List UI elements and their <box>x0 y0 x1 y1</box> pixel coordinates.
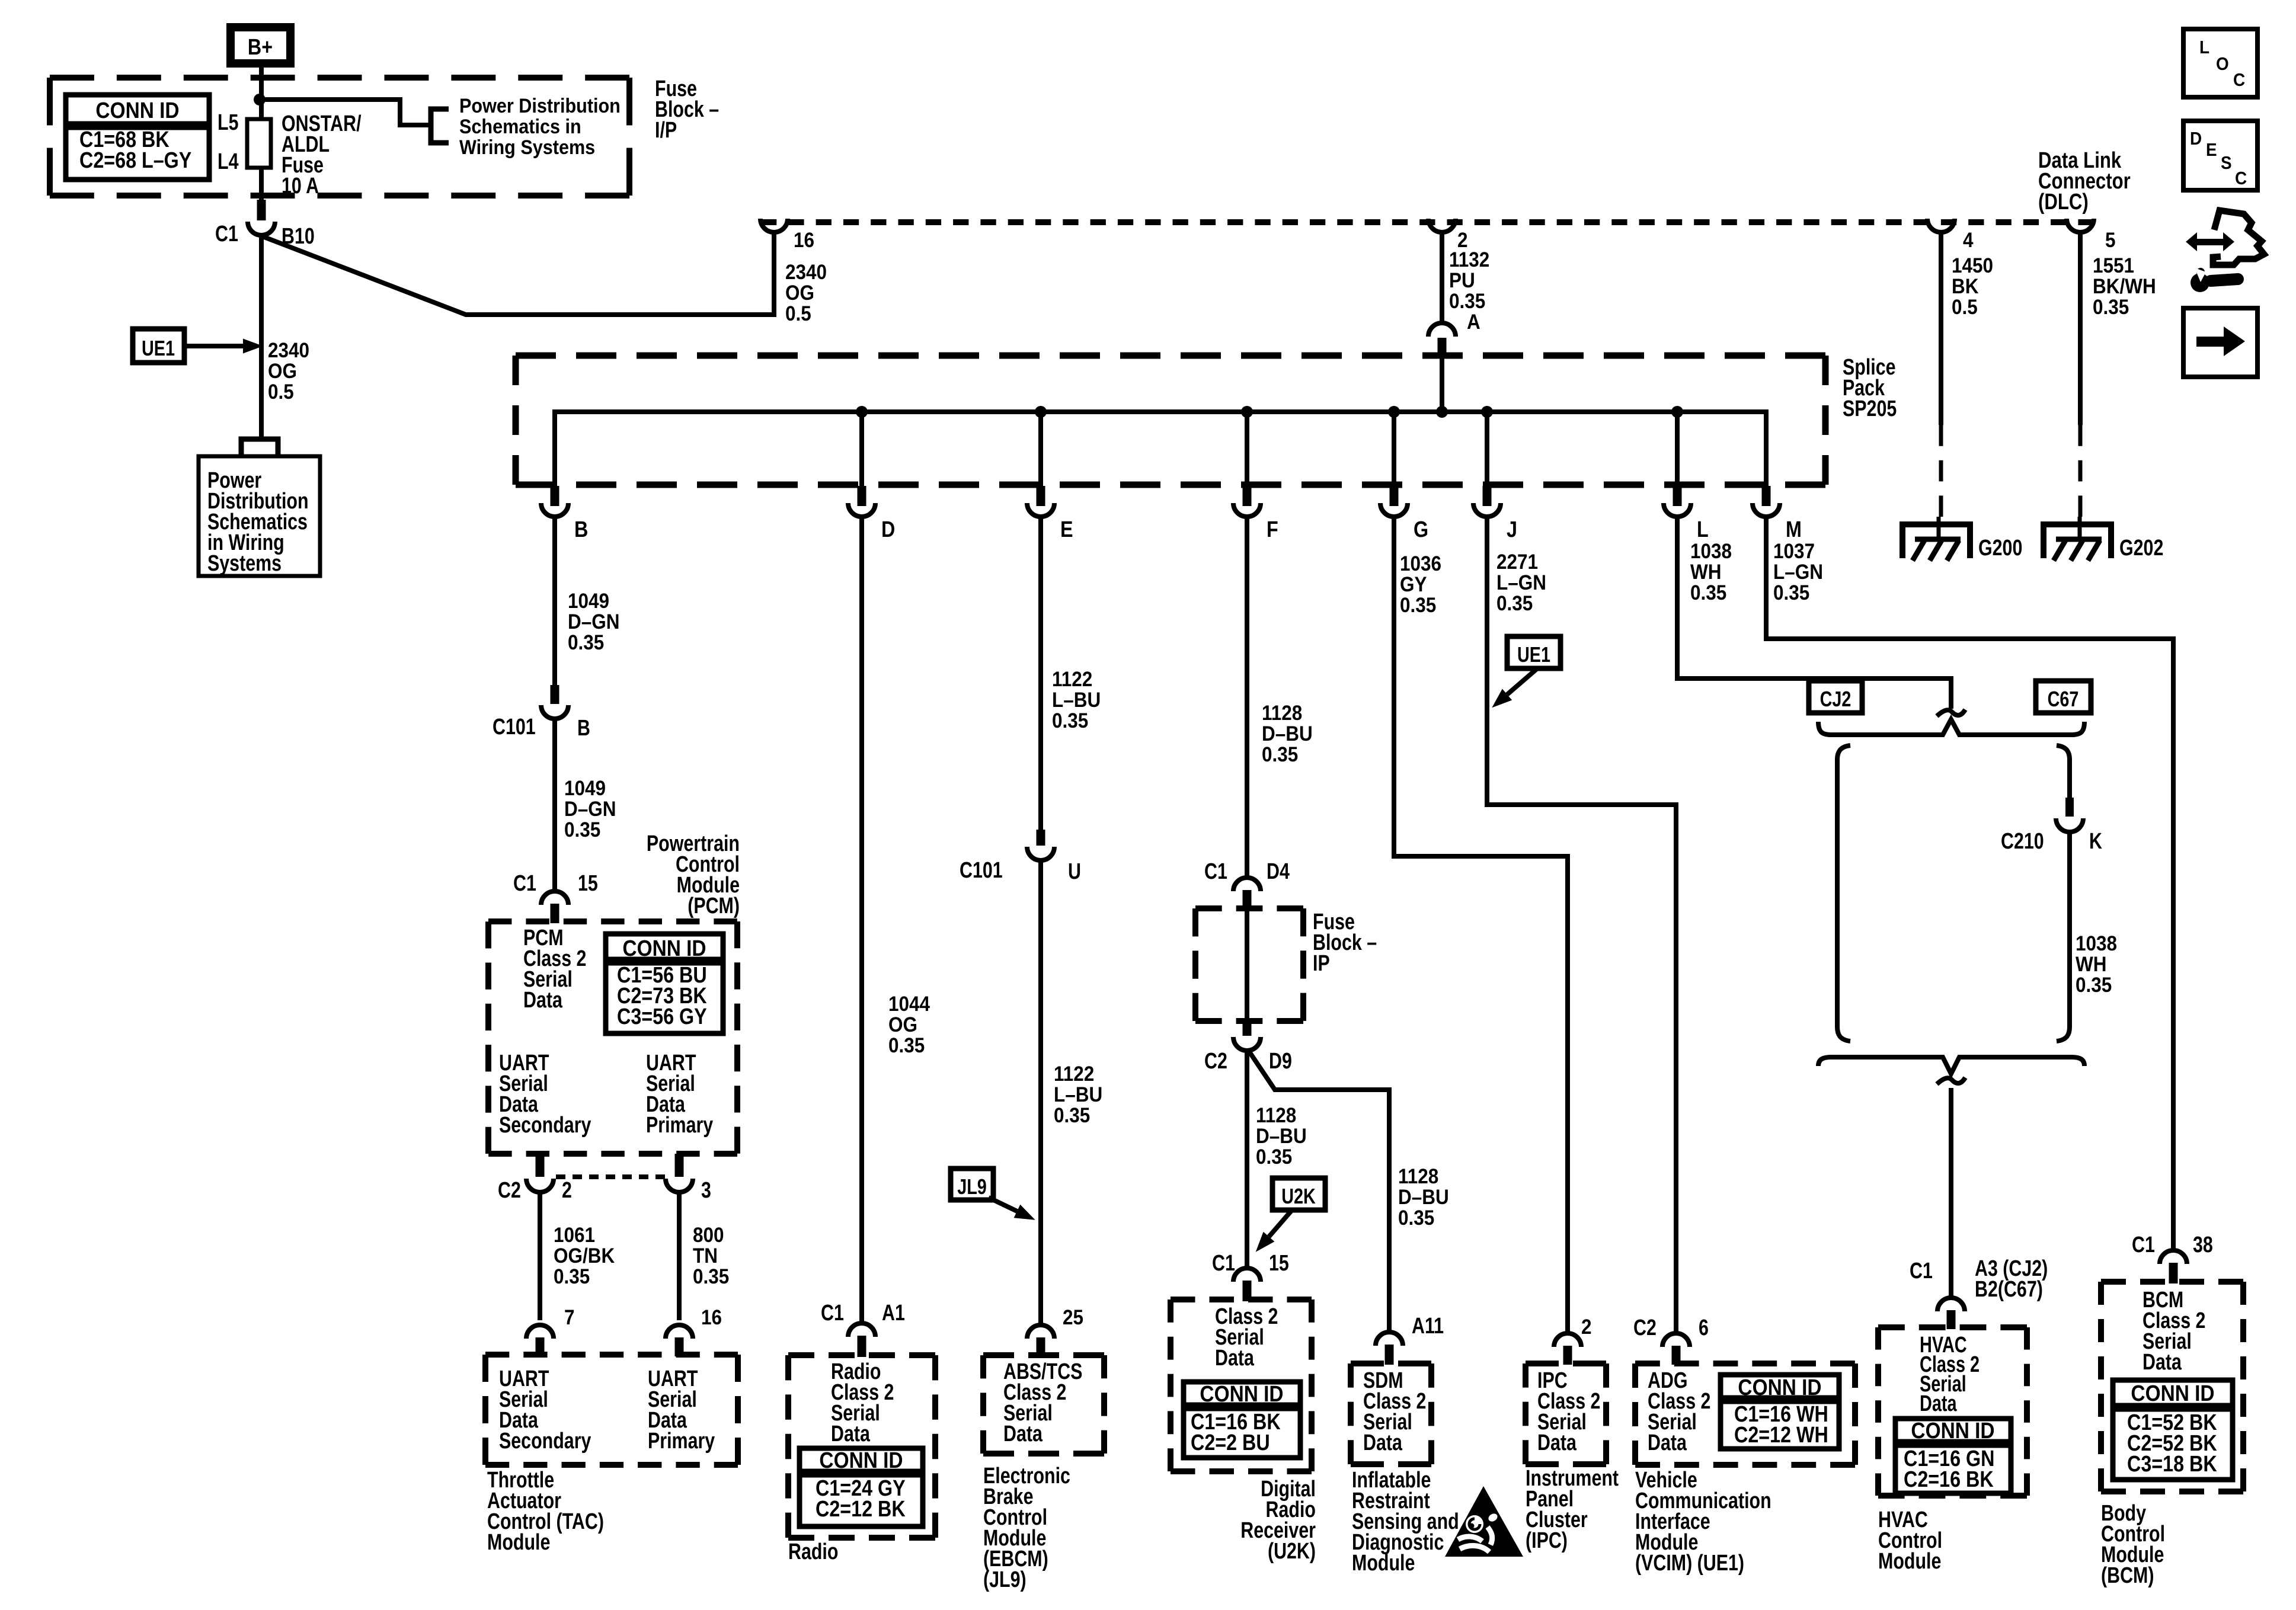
TAC module dashed box <box>485 1352 738 1358</box>
wire label 1551 BK/WH 0.35 <box>2093 255 2156 319</box>
svg-text:CJ2: CJ2 <box>1820 687 1851 711</box>
wire pin A to bus <box>1440 357 1444 412</box>
label C1 (B10) <box>215 222 238 247</box>
connector pin 2 into IPC <box>1554 1333 1581 1347</box>
wire 1128 D-BU from splice F <box>1245 517 1249 878</box>
wire label 1044 OG 0.35 <box>888 993 930 1058</box>
svg-text:C: C <box>2233 70 2245 91</box>
svg-text:D4: D4 <box>1267 859 1290 884</box>
label L5 <box>218 110 238 135</box>
svg-text:C1=56 BUC2=73 BKC3=56 GY: C1=56 BUC2=73 BKC3=56 GY <box>617 963 707 1029</box>
svg-text:C1: C1 <box>2132 1233 2155 1257</box>
wire 1061 OG/BK <box>538 1192 542 1320</box>
label D4 <box>1267 859 1290 884</box>
svg-text:C2: C2 <box>1204 1049 1227 1074</box>
label 2 <box>1457 229 1468 252</box>
wire label 1037 L-GN 0.35 (M) <box>1773 540 1823 605</box>
svg-text:C2: C2 <box>1633 1315 1657 1340</box>
svg-text:C1: C1 <box>821 1301 844 1326</box>
label terminal M <box>1786 517 1802 542</box>
label HVAC Class 2 Serial Data <box>1920 1332 1980 1416</box>
label Splice Pack SP205 <box>1843 355 1897 421</box>
label Vehicle Communication Interface Module (VCIM)(UE1) <box>1635 1468 1771 1576</box>
label Fuse Block - IP <box>1313 910 1377 976</box>
wire label 1128 D-BU 0.35 (F) <box>1262 702 1313 767</box>
wire 1128 D-BU to U2K <box>1245 1051 1249 1269</box>
svg-text:C1=16 GNC2=16 BK: C1=16 GNC2=16 BK <box>1904 1446 1994 1492</box>
wire label 1038 WH 0.35 (K) <box>2076 933 2117 997</box>
ADG dashed box <box>1635 1361 1855 1366</box>
splice pack terminal E <box>1037 486 1045 506</box>
harness brace (top) <box>1818 719 2084 735</box>
svg-text:CONN ID: CONN ID <box>1738 1375 1821 1400</box>
label 6 (ADG) <box>1699 1315 1709 1340</box>
wire 2271 L-GN <box>1487 517 1676 1333</box>
splice pack terminal J <box>1483 486 1492 506</box>
junction dot feed A <box>1436 406 1448 418</box>
wire through fuse block IP <box>1245 908 1249 1021</box>
svg-text:A1: A1 <box>882 1301 905 1326</box>
label B (C101) <box>577 716 590 741</box>
wire 1122 L-BU (lower) <box>1038 860 1043 1324</box>
wire break squiggle (bottom) <box>1937 1078 1965 1084</box>
connector C2 pin D9 <box>1243 1021 1252 1036</box>
junction dot D <box>856 406 868 418</box>
battery feed B+ symbol <box>231 27 290 63</box>
label Powertrain Control Module (PCM) <box>647 831 740 918</box>
svg-text:F: F <box>1267 517 1278 542</box>
inline connector C101 pin U <box>1037 830 1045 846</box>
UE1 arrow <box>184 344 243 348</box>
connector tie dotted <box>556 1174 665 1179</box>
splice bus SP205 <box>555 412 1766 486</box>
connector C210 pin K <box>2065 798 2074 817</box>
diagnostic wrench icon <box>2213 210 2264 265</box>
label Radio Class 2 Serial Data <box>831 1359 894 1446</box>
label terminal F <box>1267 517 1278 542</box>
wire label 1049 D-GN 0.35 (lower) <box>564 777 616 842</box>
svg-text:B: B <box>574 517 588 542</box>
splice pack terminal G <box>1390 486 1399 506</box>
wire label 1061 OG/BK 0.35 <box>554 1224 615 1289</box>
power distribution schematic bracket <box>431 109 449 143</box>
LOC legend box <box>2183 29 2257 97</box>
svg-text:UE1: UE1 <box>1517 642 1550 667</box>
connector C1 pin 38 into BCM <box>2160 1250 2187 1264</box>
svg-text:CONN ID: CONN ID <box>622 936 706 961</box>
svg-text:E: E <box>2206 140 2217 161</box>
IPC dashed box <box>1526 1361 1606 1366</box>
wire label 1038 WH 0.35 (L) <box>1690 540 1732 605</box>
DESC legend box <box>2183 121 2257 190</box>
label Power Distribution Schematics in Wiring Systems (box) <box>207 468 309 576</box>
airbag warning triangle <box>1445 1486 1523 1557</box>
svg-text:C1: C1 <box>1212 1251 1235 1276</box>
wire label 1450 BK 0.5 <box>1952 255 1993 319</box>
svg-text:CONN ID: CONN ID <box>95 98 179 123</box>
svg-text:C101: C101 <box>493 715 536 740</box>
svg-text:C1=24 GYC2=12 BK: C1=24 GYC2=12 BK <box>816 1476 906 1522</box>
label Instrument Panel Cluster (IPC) <box>1526 1466 1619 1553</box>
label HVAC Control Module <box>1878 1507 1942 1574</box>
label 15 (PCM) <box>578 871 598 896</box>
splice drop D <box>859 412 864 486</box>
svg-text:A3 (CJ2)B2(C67): A3 (CJ2)B2(C67) <box>1975 1256 2048 1302</box>
svg-text:D: D <box>2190 129 2202 149</box>
splice drop G <box>1392 412 1396 486</box>
harness rail (right) lower hook <box>2057 1027 2070 1041</box>
U2K callout box <box>1272 1178 1325 1210</box>
label terminal L <box>1697 517 1709 542</box>
label Fuse Block - I/P <box>655 76 719 143</box>
svg-text:J: J <box>1507 517 1517 542</box>
DLC pin 4 terminal <box>1927 219 1955 232</box>
svg-text:JL9: JL9 <box>957 1174 987 1199</box>
label B10 <box>282 224 315 249</box>
label Body Control Module (BCM) <box>2101 1501 2165 1588</box>
wire label 1036 GY 0.35 <box>1400 553 1441 617</box>
power distribution schematics box <box>199 456 320 576</box>
svg-text:CONN ID: CONN ID <box>819 1448 903 1473</box>
svg-text:D: D <box>881 517 895 542</box>
wire 1122 L-BU (upper) <box>1038 517 1043 831</box>
connector C2 pin 6 into VCIM <box>1662 1333 1690 1347</box>
svg-text:15: 15 <box>1269 1251 1289 1276</box>
svg-text:U2K: U2K <box>1281 1184 1316 1208</box>
label 16 <box>794 229 814 252</box>
svg-text:D9: D9 <box>1269 1049 1292 1074</box>
label C210 <box>2001 829 2044 854</box>
fuse block I/P dashed box <box>50 75 629 81</box>
label 25 (EBCM) <box>1063 1307 1083 1330</box>
wire label 2340 OG 0.5 (pin16) <box>785 261 827 326</box>
label IPC Class 2 Serial Data <box>1537 1368 1600 1455</box>
wire label 800 TN 0.35 <box>693 1224 729 1289</box>
ground G200 <box>1902 524 1970 558</box>
wire 1132 PU from DLC pin 2 <box>1440 232 1444 324</box>
label C1 (D4) <box>1204 859 1227 884</box>
svg-text:5: 5 <box>2105 229 2116 252</box>
svg-text:CONN ID: CONN ID <box>1911 1418 1994 1443</box>
wire 1037 L-GN (M) <box>1766 517 2173 1251</box>
svg-text:25: 25 <box>1063 1307 1083 1330</box>
connector C1 pin 15 into U2K receiver <box>1233 1268 1261 1282</box>
junction dot E <box>1035 406 1047 418</box>
harness rail (left) <box>1837 745 1850 1041</box>
label UART Serial Data Primary (PCM) <box>646 1051 713 1138</box>
JL9 callout box <box>951 1169 993 1200</box>
wire 2340 OG down to power distribution <box>259 235 264 439</box>
connector pin 3 below PCM <box>675 1154 684 1177</box>
svg-text:16: 16 <box>794 229 814 252</box>
power distribution destination bracket <box>241 439 278 457</box>
svg-text:L5: L5 <box>218 110 238 135</box>
wire to HVAC <box>1949 1088 1953 1298</box>
label BCM Class 2 Serial Data <box>2142 1288 2205 1375</box>
svg-text:G202: G202 <box>2119 536 2163 561</box>
label 7 (TAC) <box>564 1307 575 1330</box>
svg-text:C1: C1 <box>215 222 238 247</box>
svg-text:UE1: UE1 <box>142 336 175 360</box>
splice pack terminal M <box>1762 486 1771 506</box>
label Power Distribution Schematics in Wiring Systems <box>459 95 621 159</box>
label K (C210) <box>2089 829 2102 854</box>
wire label 1132 PU 0.35 A <box>1449 249 1489 313</box>
wire 1038 WH (L) <box>1677 517 1951 709</box>
wire label 1128 D-BU 0.35 (SDM) <box>1398 1166 1449 1230</box>
fuse ONSTAR/ALDL 10A <box>247 119 271 168</box>
svg-text:C210: C210 <box>2001 829 2044 854</box>
wire label 1128 D-BU 0.35 (U2K) <box>1256 1105 1307 1169</box>
label 4 <box>1963 229 1974 252</box>
CONN ID table (fuse block) <box>66 95 209 180</box>
svg-text:K: K <box>2089 829 2102 854</box>
legend arrow box <box>2183 308 2257 377</box>
svg-text:C67: C67 <box>2048 687 2079 711</box>
wire label 2271 L-GN 0.35 <box>1496 551 1546 616</box>
svg-text:C1: C1 <box>1910 1259 1933 1283</box>
splice drop J <box>1485 412 1489 486</box>
connector C1 pin 15 into PCM <box>541 891 568 905</box>
connector C1 pin A3/B2 into HVAC <box>1937 1298 1965 1311</box>
svg-text:16: 16 <box>701 1307 722 1330</box>
CONN ID table (BCM) <box>2113 1380 2233 1480</box>
svg-text:15: 15 <box>578 871 598 896</box>
connector C2 pin 2 below PCM <box>536 1154 545 1177</box>
label C101 (U) <box>960 858 1003 883</box>
label 3 (below PCM) <box>701 1178 711 1203</box>
DLC pin 16 terminal <box>760 219 788 232</box>
C67 callout box <box>2036 681 2091 713</box>
label Throttle Actuator Control (TAC) Module <box>487 1468 604 1555</box>
label C2 (D9) <box>1204 1049 1227 1074</box>
svg-text:2: 2 <box>562 1178 572 1203</box>
HVAC dashed box <box>1878 1324 2027 1330</box>
label 15 (U2K) <box>1269 1251 1289 1276</box>
label C1 (PCM) <box>513 871 536 896</box>
junction dot G <box>1388 406 1400 418</box>
connector C1 pin B10 <box>257 200 266 220</box>
SDM dashed box <box>1351 1361 1431 1366</box>
label ONSTAR/ALDL Fuse 10 A <box>282 111 362 199</box>
wire 1044 OG <box>859 517 864 1321</box>
svg-text:38: 38 <box>2193 1233 2213 1257</box>
svg-text:L: L <box>1697 517 1709 542</box>
splice pack terminal F <box>1243 486 1252 506</box>
junction dot F <box>1241 406 1253 418</box>
svg-text:CONN ID: CONN ID <box>1200 1381 1283 1406</box>
wire 800 TN <box>677 1192 682 1320</box>
CONN ID table (U2K) <box>1184 1382 1300 1458</box>
wire 1036 GY <box>1394 517 1568 1333</box>
label UART Serial Data Secondary (TAC) <box>499 1366 591 1454</box>
svg-text:C1=16 WHC2=12 WH: C1=16 WHC2=12 WH <box>1734 1402 1828 1448</box>
label D9 <box>1269 1049 1292 1074</box>
label C101 (B) <box>493 715 536 740</box>
label C1 (HVAC) <box>1910 1259 1933 1283</box>
svg-text:4: 4 <box>1963 229 1974 252</box>
splice pack terminal A <box>1428 323 1456 337</box>
svg-text:G200: G200 <box>1978 536 2022 561</box>
DLC connector dotted line <box>761 219 2094 225</box>
label Radio <box>788 1539 838 1564</box>
svg-text:M: M <box>1786 517 1802 542</box>
svg-text:C1=52 BKC2=52 BKC3=18 BK: C1=52 BKC2=52 BKC3=18 BK <box>2127 1410 2217 1477</box>
connector pin 25 into EBCM <box>1027 1325 1054 1339</box>
splice pack SP205 dashed box <box>516 353 1825 359</box>
CONN ID table (ADG) <box>1721 1375 1839 1449</box>
class 2 serial data dashed box (U2K) <box>1171 1297 1312 1302</box>
label Inflatable Restraint Sensing and Diagnostic Module <box>1352 1468 1459 1576</box>
label L4 <box>218 149 238 174</box>
splice pack terminal B <box>551 486 559 506</box>
label 5 <box>2105 229 2116 252</box>
CJ2 callout box <box>1809 681 1862 713</box>
svg-text:C1=16 BKC2=2 BU: C1=16 BKC2=2 BU <box>1191 1410 1281 1455</box>
JL9 arrow <box>989 1198 1017 1211</box>
label UART Serial Data Primary (TAC) <box>648 1366 715 1454</box>
wire 1049 D-GN (lower) <box>552 719 557 892</box>
svg-text:U: U <box>1068 859 1081 884</box>
connector C1 pin D4 <box>1233 878 1261 891</box>
svg-text:CONN ID: CONN ID <box>2131 1381 2214 1406</box>
wire 1551 BK/WH <box>2078 232 2083 425</box>
UE1 callout box (left) <box>133 329 184 363</box>
svg-text:3: 3 <box>701 1178 711 1203</box>
svg-text:C101: C101 <box>960 858 1003 883</box>
svg-text:L4: L4 <box>218 149 238 174</box>
wire label 1122 L-BU 0.35 (lower) <box>1054 1063 1102 1128</box>
connector C1 pin A1 into radio <box>848 1323 875 1337</box>
label Electronic Brake Control Module (EBCM)(JL9) <box>983 1464 1070 1592</box>
connector pin 16 into TAC <box>666 1325 693 1339</box>
label terminal E <box>1060 517 1073 542</box>
label Digital Radio Receiver (U2K) <box>1240 1477 1316 1564</box>
junction dot L <box>1671 406 1683 418</box>
svg-text:G: G <box>1414 517 1428 542</box>
splice drop F <box>1245 412 1249 486</box>
wire label 2340 OG 0.5 (left) <box>268 340 309 404</box>
svg-text:B: B <box>577 716 590 741</box>
svg-text:L: L <box>2199 37 2209 58</box>
svg-text:2: 2 <box>1581 1316 1592 1339</box>
wire fuse to C1 connector <box>259 168 264 201</box>
svg-text:A: A <box>1467 311 1480 334</box>
DLC pin 5 terminal <box>2067 219 2094 232</box>
svg-text:C1: C1 <box>1204 859 1227 884</box>
wire 1128 D-BU branch to SDM <box>1248 1050 1389 1333</box>
label U (C101) <box>1068 859 1081 884</box>
label PCM Class 2 Serial Data <box>523 926 586 1013</box>
wire tap to Power Distribution callout <box>261 100 431 125</box>
label 2 (IPC) <box>1581 1316 1592 1339</box>
splice drop L <box>1675 412 1680 486</box>
label C2 (below PCM) <box>498 1178 521 1203</box>
harness brace (bottom) <box>1818 1057 2084 1074</box>
fuse block IP dashed box <box>1195 905 1303 911</box>
label 38 (BCM) <box>2193 1233 2213 1257</box>
radio dashed box <box>788 1352 935 1358</box>
label ADG Class 2 Serial Data <box>1648 1368 1710 1455</box>
DLC pin 2 terminal <box>1428 219 1456 232</box>
connector pin 7 into TAC <box>526 1325 554 1339</box>
svg-text:C1: C1 <box>513 871 536 896</box>
wire 1450 BK <box>1939 232 1943 425</box>
svg-text:A11: A11 <box>1412 1314 1444 1339</box>
ABS/TCS dashed box <box>983 1352 1104 1358</box>
svg-text:C2: C2 <box>498 1178 521 1203</box>
U2K arrow <box>1269 1210 1292 1237</box>
CONN ID table (radio) <box>800 1448 923 1526</box>
svg-text:Radio: Radio <box>788 1539 838 1564</box>
svg-text:6: 6 <box>1699 1315 1709 1340</box>
label A3 (CJ2) B2(C67) <box>1975 1256 2048 1302</box>
wire B10 diagonal to DLC pin 16 <box>263 232 774 315</box>
PCM dashed box <box>488 918 737 924</box>
label 2 (below PCM) <box>562 1178 572 1203</box>
label UART Serial Data Secondary (PCM) <box>499 1051 591 1138</box>
svg-text:7: 7 <box>564 1307 575 1330</box>
wire 1049 D-GN (upper) <box>552 517 557 686</box>
ground G202 <box>2044 524 2111 558</box>
label terminal J <box>1507 517 1517 542</box>
svg-text:C: C <box>2235 168 2247 189</box>
svg-text:O: O <box>2216 54 2229 75</box>
label Data Link Connector (DLC) <box>2038 148 2131 215</box>
wire break squiggle (top) <box>1937 710 1965 716</box>
CONN ID table (PCM) <box>606 934 723 1033</box>
label C1 (radio) <box>821 1301 844 1326</box>
label Class 2 Serial Data (U2K) <box>1215 1304 1278 1371</box>
label terminal B <box>574 517 588 542</box>
label terminal D <box>881 517 895 542</box>
wire 1038 WH (K) <box>2067 832 2072 1027</box>
svg-text:S: S <box>2221 153 2232 174</box>
wire from B+ to fuse <box>259 68 264 121</box>
node junction at fuse feed <box>254 94 266 105</box>
inline connector C101 pin B <box>551 685 559 704</box>
UE1 callout box (right) <box>1507 636 1560 668</box>
label terminal G <box>1414 517 1428 542</box>
label C1 (BCM) <box>2132 1233 2155 1257</box>
wire label 1122 L-BU 0.35 (upper) <box>1052 668 1101 733</box>
label SDM Class 2 Serial Data <box>1363 1368 1426 1455</box>
splice pack terminal D <box>858 486 866 506</box>
label A1 (radio) <box>882 1301 905 1326</box>
splice drop E <box>1038 412 1043 486</box>
UE1 arrow (right) <box>1507 668 1537 694</box>
label A11 (SDM) <box>1412 1314 1444 1339</box>
BCM dashed box <box>2101 1279 2243 1285</box>
wire label 1049 D-GN 0.35 (upper) <box>568 590 619 655</box>
CONN ID table (HVAC) <box>1895 1419 2011 1493</box>
label 16 (TAC) <box>701 1307 722 1330</box>
harness rail (right) upper <box>2057 745 2070 799</box>
splice pack terminal L <box>1673 486 1682 506</box>
label C1 (U2K) <box>1212 1251 1235 1276</box>
junction dot J <box>1481 406 1493 418</box>
connector pin A11 into SDM <box>1376 1332 1403 1346</box>
label ABS/TCS Class 2 Serial Data <box>1003 1359 1082 1446</box>
svg-text:B+: B+ <box>248 35 273 60</box>
label C2 (ADG) <box>1633 1315 1657 1340</box>
svg-text:E: E <box>1060 517 1073 542</box>
